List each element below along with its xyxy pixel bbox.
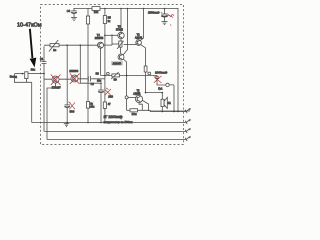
wire input left vertical — [14, 74, 16, 83]
trimmer R1 — [49, 40, 59, 52]
svg-text:Вход: Вход — [10, 74, 17, 78]
dashed border frame — [41, 5, 184, 145]
wire pot to ground bus — [31, 82, 33, 122]
red X over C2 — [68, 102, 75, 110]
resistor R5 (x=105 upper) — [103, 8, 106, 102]
wire junction x=67 down to C2 — [66, 45, 68, 105]
trimmer R8 (mid) — [111, 72, 119, 79]
svg-text:10н: 10н — [97, 79, 102, 82]
wire output to speaker top — [146, 92, 163, 94]
pin circle P3 — [148, 72, 151, 75]
terminal arrow 1 — [185, 108, 191, 113]
wire crossed pair row — [44, 78, 96, 80]
wire Qcross2 collector down — [80, 45, 101, 83]
trimmer bias under T3 — [117, 39, 123, 55]
wire T3 base — [105, 34, 118, 36]
pin circle P5 (T5 base) — [125, 96, 128, 99]
capacitor C3 (coupling, non-polar) — [88, 76, 90, 82]
wire C3 to node — [96, 78, 105, 80]
wire ground bus y=123 — [32, 122, 186, 124]
wire input wiper — [15, 73, 23, 75]
wire jog x=112 to T1 collector — [111, 35, 113, 45]
transistor Q-cross1 (crossed out) — [52, 76, 59, 83]
svg-text:10к: 10к — [31, 68, 36, 72]
svg-text:Гр1: Гр1 — [158, 86, 163, 90]
svg-text:С4: С4 — [67, 9, 71, 13]
svg-text:ЗГ 2200мкф: ЗГ 2200мкф — [104, 115, 123, 119]
resistor R6 (x=88 lower) — [86, 102, 89, 123]
wire T4 emitter to T5 base pin — [126, 75, 128, 95]
transistor Q-cross2 (crossed out) — [71, 75, 78, 82]
wire Qcross1 emitter down to bus3 — [47, 83, 56, 140]
wire output bus y=111 with terminal — [150, 111, 186, 113]
transistor T4 — [118, 8, 128, 60]
wire top supply rail — [74, 8, 179, 10]
ground (under C4) — [71, 17, 77, 20]
wire bus2 y=131 — [45, 131, 187, 133]
svg-text:АД161: АД161 — [135, 36, 143, 39]
red X over Q-cross1 — [51, 75, 61, 86]
wire bias wiper stub — [112, 43, 119, 45]
transistor T2 — [136, 8, 144, 45]
annotation arrow — [30, 29, 37, 68]
label T4 2N3055 (boxed) — [112, 61, 123, 65]
svg-text:10-47кОм: 10-47кОм — [17, 22, 42, 28]
bus junction dots — [66, 122, 105, 124]
resistor R3 (series rail) — [92, 7, 100, 11]
node base dots — [104, 35, 106, 37]
pin circle P1 — [107, 72, 110, 75]
node dots on input line — [66, 44, 81, 46]
wire right supply drop — [177, 8, 179, 112]
svg-text:220: 220 — [108, 94, 113, 98]
wire T5 emitter loop — [139, 103, 142, 111]
wire input bottom — [14, 81, 32, 83]
ground tick on bus — [64, 123, 69, 127]
wire T5 base — [128, 96, 135, 98]
svg-text:КТ815: КТ815 — [116, 29, 124, 32]
node rail junction dots — [104, 8, 165, 10]
speaker — [161, 93, 167, 112]
resistor R11 (x=145.5) — [144, 66, 147, 72]
transistor T1 — [98, 42, 104, 75]
svg-text:10к: 10к — [94, 10, 99, 14]
svg-text:1500мкФ: 1500мкФ — [148, 11, 160, 15]
node dot mid — [104, 75, 106, 77]
wire T1 input line — [44, 44, 98, 46]
ground (under C5) — [162, 22, 168, 25]
wire output node right — [169, 85, 174, 112]
capacitor C4 (rail filter) — [71, 8, 77, 17]
red X over C7 — [154, 76, 162, 83]
wire T4 emitter down — [123, 59, 126, 75]
wire output to bottom line — [142, 109, 190, 112]
wire T2 base — [124, 44, 136, 46]
red X over C6 — [105, 88, 112, 96]
svg-text:1000мкФ: 1000мкФ — [155, 70, 168, 74]
svg-text:1Ом: 1Ом — [132, 113, 137, 116]
pin circle P4 (output) — [166, 83, 169, 86]
wire bus3 y=139.3 — [47, 139, 186, 141]
wire C1 node down to bus2 — [43, 74, 45, 132]
svg-text:4А: 4А — [168, 102, 171, 105]
wire T1 collector — [104, 44, 113, 46]
svg-text:2N3055: 2N3055 — [113, 62, 122, 65]
resistor R2 (x=88 upper) — [86, 8, 89, 102]
svg-text:конденсатор на 500мк: конденсатор на 500мк — [104, 120, 134, 124]
wire mid emitter line — [101, 74, 157, 76]
red X over Q-cross2 — [70, 74, 80, 85]
svg-text:1м: 1м — [53, 49, 56, 52]
terminal arrow 2 — [185, 119, 191, 124]
terminal arrow 3 — [185, 128, 191, 133]
capacitor C5 1500uF — [161, 8, 167, 22]
svg-text:АД161: АД161 — [133, 92, 141, 95]
capacitor C2 (crossed out, x=67.2, 500) — [65, 105, 70, 123]
capacitor C1 (input, x=44) — [42, 46, 47, 73]
resistor R10 (x=105 lower) — [103, 102, 106, 123]
svg-text:2N3906: 2N3906 — [69, 70, 78, 73]
terminal arrow 4 — [185, 136, 191, 141]
wire T2 emitter down — [141, 45, 146, 66]
capacitor C6 (crossed out, x=101) — [98, 83, 104, 122]
red annotation scribble near C5 — [167, 14, 174, 25]
capacitor C7 (crossed out, x=157) — [155, 75, 166, 85]
wire T5 collector stub — [138, 93, 140, 96]
resistor R12 (emitter, horizontal) — [130, 109, 138, 112]
transistor T5 — [135, 95, 148, 111]
svg-text:2N3055: 2N3055 — [95, 37, 104, 40]
svg-text:500: 500 — [70, 109, 75, 113]
transistor T3 — [118, 8, 124, 39]
potentiometer 10k — [25, 72, 44, 83]
